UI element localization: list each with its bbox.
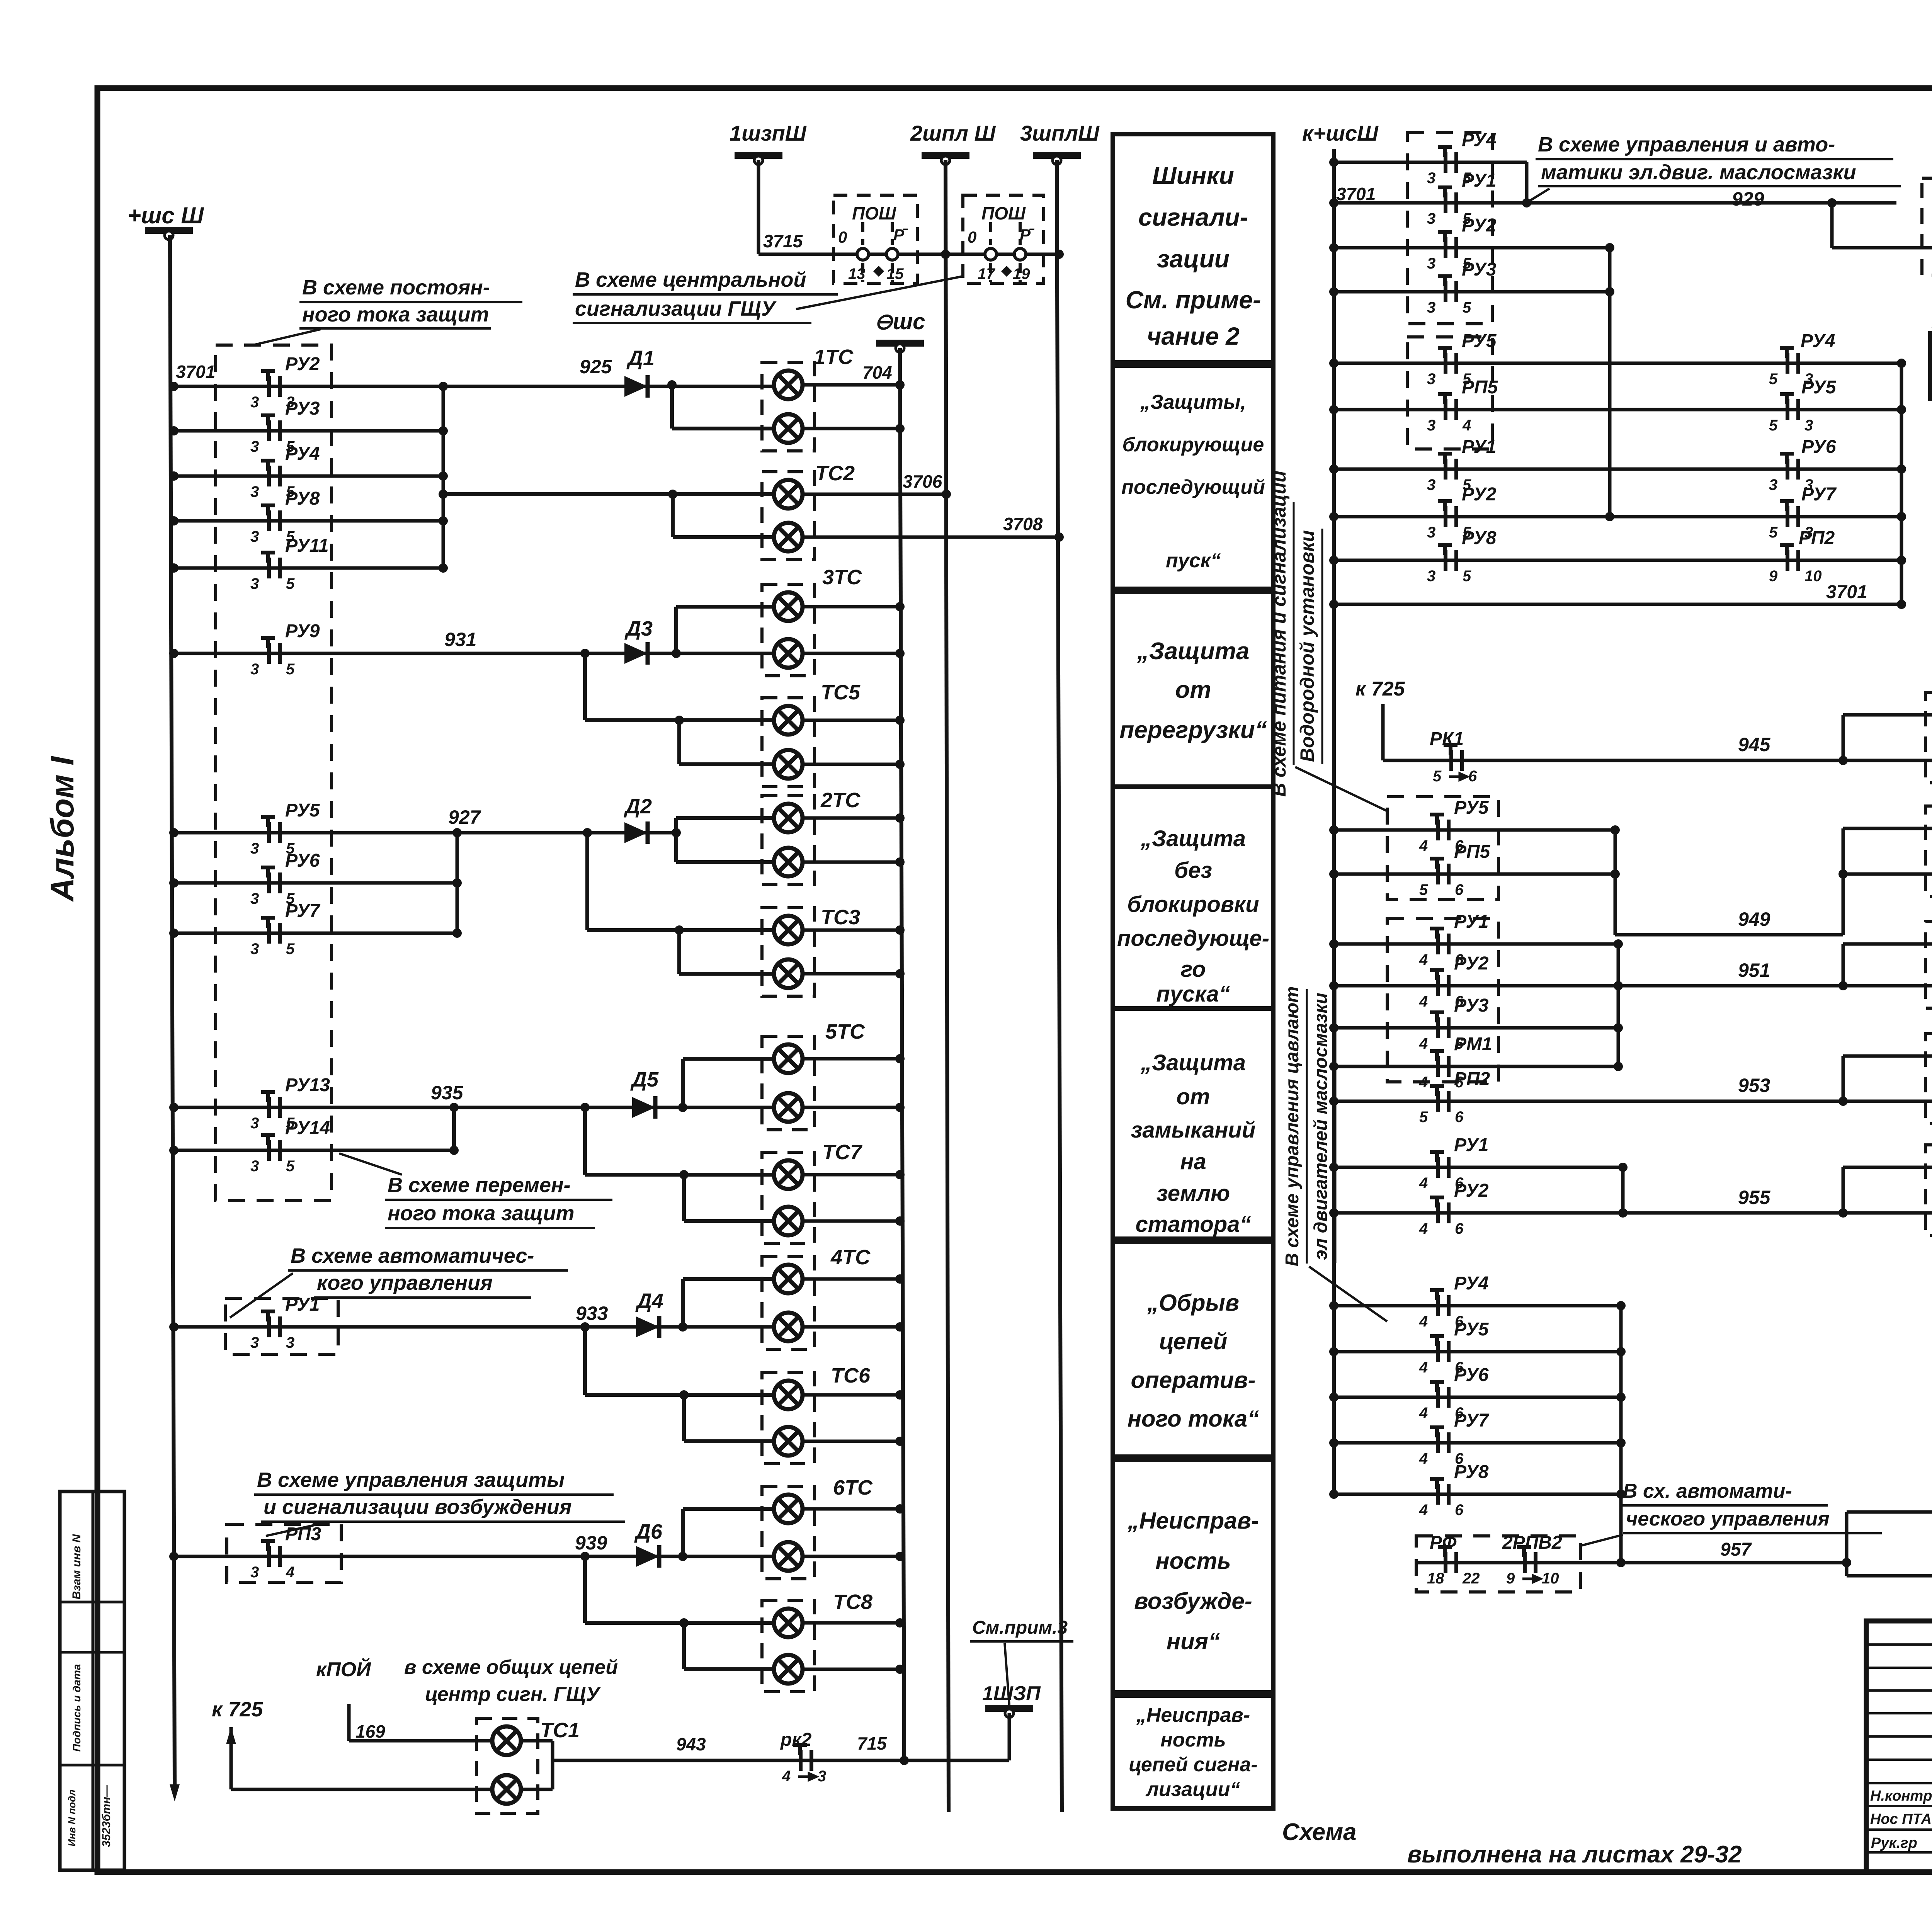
wire 4ТС upper row [683,1277,774,1281]
svg-text:Инв N подл: Инв N подл [66,1789,78,1846]
svg-text:„Защита: „Защита [1140,826,1246,851]
contact РУ6 [261,867,280,893]
svg-text:927: 927 [448,806,481,828]
junction [449,1146,459,1155]
svg-text:РУ8: РУ8 [285,488,320,509]
svg-text:РУ1: РУ1 [1454,1135,1488,1155]
junction [1616,1393,1626,1402]
svg-text:1шзпШ: 1шзпШ [730,121,807,145]
note underline [314,1296,531,1299]
svg-text:6: 6 [1455,1502,1464,1519]
svg-text:3701: 3701 [176,362,215,382]
wire ТС2 loop [671,494,675,537]
junction [1618,1163,1628,1172]
switch contact circle [886,248,898,260]
margin table divider [60,1651,124,1654]
svg-text:и сигнализации возбуждения: и сигнализации возбуждения [264,1495,572,1519]
junction [1614,939,1623,949]
lamp ТС3 lower [774,959,803,988]
wire join ТС1 [551,1741,554,1789]
svg-text:5: 5 [1433,768,1442,785]
wire lamp return [803,1219,900,1223]
wire drop to ТС3 [585,833,589,930]
svg-text:4: 4 [1419,1359,1428,1376]
junction [678,1322,687,1332]
wire row РУ6 [174,881,457,885]
svg-text:3: 3 [250,1564,259,1581]
svg-text:3: 3 [250,661,259,678]
svg-text:9: 9 [1506,1570,1515,1587]
svg-text:РУ2: РУ2 [1454,953,1489,974]
contact РУ8 [261,505,280,531]
svg-text:РФ: РФ [1430,1532,1457,1553]
junction [895,602,905,611]
wire lamp return [803,1325,900,1329]
junction [1616,1438,1626,1447]
svg-text:ПОШ: ПОШ [981,203,1026,223]
contact РУ1 [1438,454,1456,480]
wire row РУ2 [1334,246,1610,250]
wire lamp return [803,1555,900,1558]
junction [169,1552,179,1561]
wire lamp return [803,1277,900,1281]
svg-text:943: 943 [676,1734,706,1754]
wire ТС3 loop [677,930,681,974]
lamp ТС3 upper [774,916,803,944]
svg-text:939: 939 [575,1532,607,1554]
text box [1113,1009,1273,1239]
wire stub [1847,1510,1932,1514]
contact РУ13 [261,1092,280,1118]
svg-text:0: 0 [838,228,847,246]
svg-text:3: 3 [818,1768,826,1785]
title block row [1866,1643,1932,1646]
svg-text:к 725: к 725 [212,1698,263,1721]
leader [1528,189,1549,202]
svg-text:3шплШ: 3шплШ [1020,121,1100,145]
svg-text:ния“: ния“ [1167,1628,1220,1654]
wire lamp return [803,652,900,655]
lamp 2ТС upper [774,804,803,832]
switch contact circle [857,248,869,260]
bus end arrow [170,1784,180,1801]
switch pole dash [861,263,864,282]
junction [1329,405,1338,414]
svg-text:Рук.гр: Рук.гр [1871,1835,1917,1851]
wire collector A [442,386,445,568]
svg-text:15: 15 [886,265,904,282]
svg-text:ного тока“: ного тока“ [1128,1406,1259,1432]
wire lamp return [803,605,900,609]
contact РП2 [1780,545,1798,571]
contact РУ11 [261,553,280,578]
junction [672,649,681,658]
dashed lamp box ТС3 [762,908,815,996]
svg-text:10: 10 [1804,568,1822,585]
wire row РУ2 [174,385,774,388]
svg-text:3: 3 [250,394,259,411]
junction [1614,1023,1623,1032]
lamp 6ТС lower [774,1542,803,1571]
dashed lamp box 4ТС [762,1257,815,1349]
contact РП5 [1430,859,1449,884]
junction [1329,1097,1338,1106]
wire row РУ1 [1334,942,1618,946]
junction [169,1103,179,1112]
dashed lamp box ТС6 [762,1372,815,1464]
wire ТС4 lower stub [1832,246,1932,250]
svg-text:РУ2: РУ2 [1454,1180,1489,1201]
title block row [1866,1735,1932,1738]
dashed box РП3 [227,1524,341,1582]
dashed box ПОШ [963,195,1044,283]
svg-text:РУ14: РУ14 [285,1118,330,1138]
svg-text:5: 5 [286,940,295,957]
svg-text:4: 4 [1462,417,1471,434]
junction [1897,512,1906,521]
wire net 3706 [803,493,946,496]
junction [1616,1558,1626,1567]
junction [1329,158,1338,167]
svg-text:925: 925 [580,356,612,378]
junction [895,380,905,389]
contact РУ1 [1438,187,1456,213]
wire 6ТС loop [681,1509,685,1556]
svg-text:последующе-: последующе- [1117,926,1269,951]
junction [1897,405,1906,414]
svg-text:РУ5: РУ5 [1462,331,1497,351]
junction [169,649,179,658]
svg-text:3: 3 [250,1334,259,1351]
svg-text:13: 13 [848,265,866,282]
wire lamp return [803,929,900,932]
junction [452,828,462,837]
wire ТС6 upper row [585,1393,774,1397]
junction [169,426,179,435]
diamond mark [1001,266,1012,277]
junction [1897,600,1906,609]
svg-text:2шпл Ш: 2шпл Ш [910,121,996,145]
junction [895,1322,905,1332]
junction [1329,1062,1338,1071]
text box [1113,134,1273,362]
contact РМ1 [1430,1051,1449,1077]
junction [1329,556,1338,565]
svg-text:оператив-: оператив- [1131,1367,1256,1393]
junction [1897,464,1906,474]
junction [1618,1208,1628,1218]
svg-text:сигнали-: сигнали- [1138,203,1248,231]
dashed lamp box 10ТС [1925,1034,1932,1124]
wire net 945 [1383,759,1843,762]
wire row РУ6 [1334,1396,1621,1399]
junction [1329,981,1338,990]
junction [1329,939,1338,949]
junction [580,649,590,658]
bus +шсШ [145,227,193,240]
text box [1113,1242,1273,1457]
junction [1329,359,1338,368]
note underline [1621,1504,1828,1507]
svg-text:РП2: РП2 [1454,1069,1490,1089]
diode Д2 [624,821,648,844]
contact РУ4 [1430,1290,1449,1316]
svg-text:3: 3 [250,438,259,455]
svg-text:Подпись и дата: Подпись и дата [71,1664,83,1752]
wire lamp return [803,861,900,864]
note underline [299,301,522,303]
wire drop to ТС6 [583,1327,587,1395]
svg-text:3: 3 [1769,476,1777,493]
contact РФ [1438,1547,1456,1573]
svg-text:В схеме управления защиты: В схеме управления защиты [257,1468,565,1492]
wire net 3701 return [1334,603,1901,606]
svg-text:го: го [1181,957,1206,982]
junction [895,1390,905,1400]
dashed lamp box 5ТС [762,1036,815,1130]
note underline [385,1199,612,1201]
title block row [1866,1712,1932,1714]
diamond mark [873,266,884,277]
junction [678,1103,687,1112]
contact РУ5 [1430,815,1449,840]
junction [169,563,179,573]
svg-text:РУ3: РУ3 [1454,995,1489,1016]
junction [679,1390,689,1400]
svg-text:РУ7: РУ7 [1454,1410,1490,1431]
svg-text:5: 5 [286,1158,295,1175]
contact РП2 [1430,1086,1449,1112]
svg-text:5: 5 [1419,1109,1428,1126]
svg-text:4: 4 [1419,1220,1428,1237]
svg-text:лизации“: лизации“ [1145,1778,1240,1801]
wire net 943-715 [553,1759,1009,1762]
lamp ТС7 upper [774,1160,803,1189]
junction [439,471,448,481]
lamp 6ТС upper [774,1495,803,1523]
wire 3ТС loop [674,607,678,653]
wire row РУ11 [174,566,443,570]
junction ⊖шс [900,1756,909,1765]
leader [1295,767,1388,811]
svg-text:+шс Ш: +шс Ш [128,202,204,228]
contact РК1 [1444,745,1462,771]
junction [895,1504,905,1514]
wire net 3715 [759,253,1059,256]
wire ТС4 loop [1830,203,1834,248]
contact РУ2 [261,371,280,397]
contact РУ6 [1430,1382,1449,1408]
diode Д1 [624,375,648,398]
contact РУ3 [1430,1012,1449,1038]
svg-text:РУ1: РУ1 [1462,437,1496,457]
svg-text:в схеме общих цепей: в схеме общих цепей [404,1656,618,1679]
contact РУ4 [1438,147,1456,173]
junction [169,382,179,391]
note underline [1623,1532,1882,1534]
contact РУ2 [1438,232,1456,258]
svg-text:от: от [1175,677,1211,703]
svg-text:4: 4 [1419,1405,1428,1422]
contact РУ5 [1438,348,1456,374]
wire collector [1608,248,1612,517]
svg-text:5: 5 [1769,417,1778,434]
svg-text:РУ3: РУ3 [285,398,320,419]
dashed box РФ 2РПВ2 [1416,1536,1580,1592]
wire ТС3 upper row [587,928,774,932]
svg-text:В схеме центральной: В схеме центральной [575,268,806,291]
wire net 949 [1615,933,1843,937]
svg-text:зации: зации [1157,245,1230,273]
wire ТС2 lower row [673,535,774,539]
svg-text:центр сигн. ГЩУ: центр сигн. ГЩУ [425,1683,601,1706]
svg-text:4: 4 [1419,1502,1428,1519]
junction [1329,1301,1338,1310]
svg-text:выполнена на листах 29-32: выполнена на листах 29-32 [1407,1841,1742,1868]
svg-text:В схеме перемен-: В схеме перемен- [388,1173,571,1197]
svg-text:3: 3 [1427,170,1435,187]
wire row РП5 [1334,408,1901,412]
lamp ТС1 upper [492,1726,521,1755]
svg-text:землю: землю [1156,1181,1230,1206]
text box [1113,1696,1273,1808]
leader [1005,1643,1009,1705]
diode Д4 [636,1316,659,1338]
dashed lamp box 2ТС [762,796,815,884]
wire join 11ТС [1842,1167,1845,1213]
svg-text:⊖шс: ⊖шс [874,309,925,334]
junction [1329,825,1338,835]
wire 4ТС loop [681,1279,685,1327]
svg-text:возбужде-: возбужде- [1134,1588,1252,1614]
svg-text:РУ13: РУ13 [285,1075,330,1095]
junction [895,1170,905,1179]
junction [1614,1062,1623,1071]
wire collector C [456,833,459,933]
svg-text:РМ1: РМ1 [1454,1034,1492,1054]
wire join 12ТС [1845,1512,1849,1576]
margin table divider [60,1764,124,1767]
svg-text:„Защиты,: „Защиты, [1140,391,1246,413]
wire collector [1617,944,1620,1066]
wire net 951 [1334,984,1932,988]
svg-text:4: 4 [1419,993,1428,1010]
svg-text:Шинки: Шинки [1152,162,1234,189]
junction [1605,287,1614,296]
wire net 169 [349,1739,492,1743]
junction [679,1618,689,1628]
svg-text:РУ8: РУ8 [1454,1462,1489,1482]
junction [580,1322,590,1332]
junction [678,1552,687,1561]
lamp ТС6 upper [774,1381,803,1409]
wire collector [1621,1167,1625,1213]
wire net 955 [1334,1211,1932,1215]
lamp 5ТС lower [774,1093,803,1122]
junction [1329,243,1338,252]
svg-text:6: 6 [1455,881,1464,898]
junction [452,878,462,888]
bus 1ШЗП [985,1705,1033,1718]
leader [1309,1267,1387,1321]
junction [1329,869,1338,879]
svg-text:ПОШ: ПОШ [852,203,896,223]
wire row РУ1 [174,1325,774,1329]
svg-text:3ТС: 3ТС [822,566,862,589]
diode Д5 [632,1096,655,1119]
wire drop to ТС7 [583,1107,587,1175]
note underline [385,1227,595,1229]
svg-text:Н.контр.: Н.контр. [1870,1788,1932,1804]
svg-text:ТС1: ТС1 [540,1719,580,1742]
wire ТС8 lower row [684,1667,774,1671]
wire lamp return [803,1440,900,1443]
junction [169,516,179,526]
note underline [288,1269,568,1272]
switch pole dash [1019,222,1022,245]
contact РУ5 [1430,1336,1449,1362]
lamp 1ТС upper [774,371,803,399]
svg-text:3: 3 [250,1115,259,1132]
svg-text:3701: 3701 [1826,582,1867,602]
junction [1897,359,1906,368]
wire ⊖шс vertical [900,348,904,1760]
junction [895,1552,905,1561]
svg-text:929: 929 [1732,188,1764,210]
wire lamp return [803,1106,900,1109]
leader [339,1153,402,1175]
lamp 3ТС lower [774,639,803,668]
svg-text:РП5: РП5 [1462,377,1498,398]
junction [1329,512,1338,521]
wire stub [1843,1166,1932,1169]
junction [169,929,179,938]
contact РУ3 [261,415,280,441]
svg-text:В схеме питания и сигнализации: В схеме питания и сигнализации [1268,471,1290,797]
pin arrow [1449,774,1467,780]
dashed box group [1407,337,1492,449]
dashed lamp box 1ТС [762,362,815,451]
junction [583,828,592,837]
svg-text:кого управления: кого управления [317,1271,493,1294]
svg-text:3: 3 [250,528,259,545]
wire row РУ14 [174,1149,454,1152]
svg-text:статора“: статора“ [1135,1212,1251,1237]
junction [941,250,950,259]
svg-text:945: 945 [1738,734,1771,755]
arrow к725 [226,1727,236,1744]
wire 3ТС upper row [676,605,774,609]
junction [1838,1208,1848,1218]
leader [230,1273,293,1318]
wire row РУ5 [174,831,676,835]
svg-text:от: от [1177,1084,1210,1109]
junction [1329,464,1338,474]
wire к725 stem [230,1727,233,1789]
svg-text:См.прим.3: См.прим.3 [972,1617,1068,1638]
svg-text:„Неисправ-: „Неисправ- [1127,1508,1259,1534]
lamp 1ТС lower [774,414,803,443]
svg-text:3706: 3706 [903,471,942,492]
junction [675,716,684,725]
svg-text:6ТС: 6ТС [833,1476,873,1499]
dashed group box [216,345,332,1201]
junction [942,490,951,499]
junction [449,1103,459,1112]
wire 2ТС lower row [676,860,774,864]
text box [1113,592,1273,787]
junction [1616,1347,1626,1356]
